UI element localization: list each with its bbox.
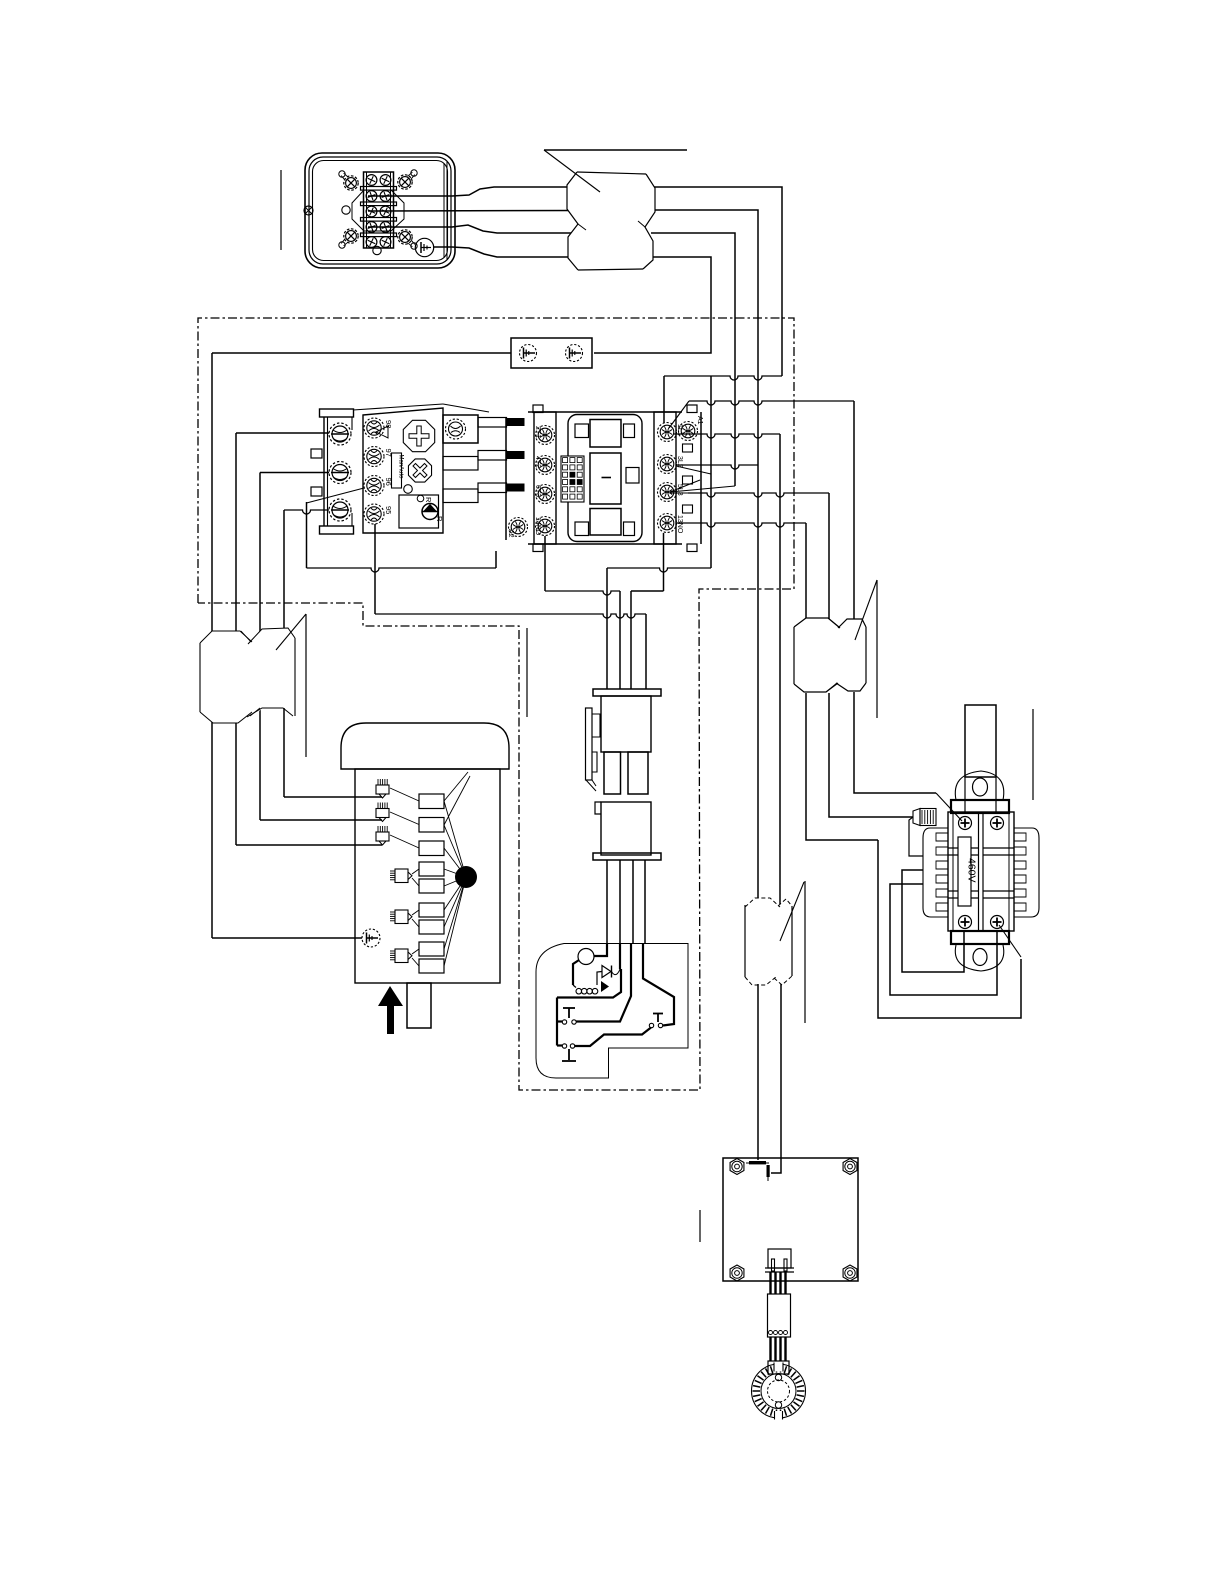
svg-text:ManAuto: ManAuto <box>398 455 404 480</box>
svg-text:A2: A2 <box>507 529 514 538</box>
svg-text:R: R <box>424 497 433 503</box>
svg-text:14NO: 14NO <box>534 517 541 536</box>
svg-text:13NO: 13NO <box>676 515 683 534</box>
svg-text:95: 95 <box>384 506 393 514</box>
svg-text:6T3: 6T3 <box>534 485 541 497</box>
svg-text:5L3: 5L3 <box>676 484 683 496</box>
svg-text:2T1: 2T1 <box>534 426 541 438</box>
svg-text:4T2: 4T2 <box>534 456 541 468</box>
svg-text:A1: A1 <box>696 416 703 425</box>
svg-text:460V: 460V <box>966 858 978 883</box>
svg-text:R: R <box>435 516 444 522</box>
